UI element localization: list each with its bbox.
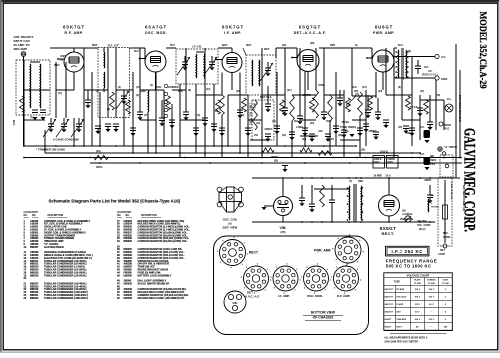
svg-text:(48): (48) bbox=[310, 42, 314, 45]
svg-text:(4): (4) bbox=[150, 84, 153, 87]
svg-text:NO.: NO. bbox=[126, 215, 130, 217]
svg-text:100V: 100V bbox=[430, 164, 436, 166]
svg-text:6SA7GT: 6SA7GT bbox=[145, 25, 167, 30]
svg-text:(36): (36) bbox=[361, 150, 365, 152]
svg-text:6SK7GT: 6SK7GT bbox=[222, 25, 244, 30]
svg-text:.05MFD: .05MFD bbox=[270, 157, 279, 159]
svg-text:ALL MEASUREMENTS MADE WITH A: ALL MEASUREMENTS MADE WITH A bbox=[384, 337, 427, 340]
svg-text:LOOP: LOOP bbox=[438, 253, 445, 256]
svg-text:.006: .006 bbox=[318, 131, 323, 133]
svg-text:PWR. AMP.: PWR. AMP. bbox=[314, 249, 332, 253]
svg-text:115 V: 115 V bbox=[414, 304, 420, 306]
svg-text:(22): (22) bbox=[294, 120, 298, 123]
svg-text:6U6GT: 6U6GT bbox=[385, 319, 393, 321]
svg-text:B65322: B65322 bbox=[30, 297, 39, 300]
svg-text:(20): (20) bbox=[310, 123, 314, 125]
svg-text:1000 OHM PER VOLT METER: 1000 OHM PER VOLT METER bbox=[384, 340, 418, 343]
svg-text:(2): (2) bbox=[118, 87, 121, 89]
svg-text:110 V: 110 V bbox=[428, 319, 434, 321]
svg-text:6X5GT: 6X5GT bbox=[385, 327, 392, 329]
svg-text:BAT.: BAT. bbox=[12, 120, 16, 126]
svg-text:(21): (21) bbox=[287, 89, 292, 92]
svg-text:RED: RED bbox=[330, 44, 335, 47]
svg-text:100 V: 100 V bbox=[414, 289, 420, 291]
svg-text:"A" INPUT: "A" INPUT bbox=[444, 145, 458, 149]
svg-text:(50): (50) bbox=[436, 95, 440, 97]
svg-text:RECT.: RECT. bbox=[381, 231, 394, 236]
svg-text:PART: PART bbox=[126, 211, 133, 214]
svg-text:GAS RECTIFIER: GAS RECTIFIER bbox=[44, 245, 64, 249]
svg-text:545 KC TO 1600 KC: 545 KC TO 1600 KC bbox=[386, 264, 432, 269]
svg-text:FREQUENCY RANGE: FREQUENCY RANGE bbox=[386, 258, 438, 263]
svg-text:RECT: RECT bbox=[397, 327, 403, 329]
svg-text:OF CHASSIS: OF CHASSIS bbox=[313, 316, 334, 320]
svg-text:25 V.: 25 V. bbox=[386, 175, 392, 178]
svg-text:VOL. CONT.: VOL. CONT. bbox=[417, 224, 431, 227]
svg-text:CHOKE: CHOKE bbox=[431, 207, 439, 209]
svg-text:BLU: BLU bbox=[134, 50, 139, 53]
svg-text:6SK7GT: 6SK7GT bbox=[385, 289, 394, 291]
svg-text:V.C.: V.C. bbox=[428, 70, 433, 73]
svg-text:RED: RED bbox=[358, 180, 363, 183]
svg-text:.5MFD: .5MFD bbox=[424, 179, 431, 182]
svg-text:90 V: 90 V bbox=[429, 304, 434, 306]
svg-text:OSC MOD: OSC MOD bbox=[397, 297, 407, 299]
svg-text:1000-Ω: 1000-Ω bbox=[380, 150, 388, 153]
svg-text:R65330: R65330 bbox=[124, 240, 133, 243]
svg-text:PLG.: PLG. bbox=[444, 128, 450, 131]
svg-text:500K: 500K bbox=[326, 121, 332, 123]
svg-text:ANT.: ANT. bbox=[60, 54, 66, 58]
svg-text:(26): (26) bbox=[354, 90, 358, 93]
svg-text:WHT.: WHT. bbox=[54, 64, 60, 67]
svg-text:(43-1): (43-1) bbox=[253, 103, 256, 110]
svg-text:TO GND: TO GND bbox=[428, 283, 436, 285]
svg-text:TUBE: TUBE bbox=[394, 282, 401, 284]
svg-text:GND.: GND. bbox=[441, 77, 448, 81]
svg-text:DESCRIPTION: DESCRIPTION bbox=[141, 215, 157, 217]
svg-text:(41): (41) bbox=[402, 210, 406, 213]
svg-text:BATTERY LEAD ASSEMBLY: BATTERY LEAD ASSEMBLY bbox=[138, 273, 172, 277]
svg-text:6SK7GT: 6SK7GT bbox=[385, 304, 394, 306]
svg-text:120 V: 120 V bbox=[428, 289, 434, 291]
svg-text:BAT.: BAT. bbox=[443, 232, 448, 235]
svg-text:B65316: B65316 bbox=[30, 274, 39, 277]
svg-text:I.F. AMP.: I.F. AMP. bbox=[224, 31, 241, 35]
svg-text:(27): (27) bbox=[330, 139, 334, 141]
svg-text:OSC. MOD.: OSC. MOD. bbox=[145, 31, 167, 35]
svg-text:AC: AC bbox=[416, 326, 420, 329]
svg-text:R.F. AMP.: R.F. AMP. bbox=[65, 31, 84, 35]
svg-text:WHT.: WHT. bbox=[92, 44, 98, 47]
svg-text:I.F. 141: I.F. 141 bbox=[192, 45, 202, 49]
svg-text:(6): (6) bbox=[188, 89, 191, 92]
svg-text:(31): (31) bbox=[272, 121, 276, 123]
svg-text:OSC: OSC bbox=[156, 86, 162, 89]
svg-text:CATH: CATH bbox=[443, 279, 449, 282]
svg-text:(33): (33) bbox=[96, 149, 101, 153]
svg-text:2 GANG COND. 365: 2 GANG COND. 365 bbox=[53, 138, 79, 142]
svg-text:MODEL 352,Ch.A-29: MODEL 352,Ch.A-29 bbox=[477, 12, 488, 89]
svg-text:ON-OFF: ON-OFF bbox=[417, 220, 427, 223]
svg-text:BLK: BLK bbox=[178, 90, 183, 93]
svg-text:WHT: WHT bbox=[222, 44, 228, 47]
svg-text:BOT. VIEW: BOT. VIEW bbox=[223, 226, 238, 230]
svg-text:(7): (7) bbox=[349, 180, 352, 183]
svg-text:(16): (16) bbox=[398, 127, 402, 129]
svg-text:A.V.C.-A.F.: A.V.C.-A.F. bbox=[245, 295, 260, 299]
svg-text:BLU: BLU bbox=[398, 44, 403, 47]
svg-text:TO GND: TO GND bbox=[414, 283, 422, 285]
svg-text:SCALE (WHITE BEAM) SP.: SCALE (WHITE BEAM) SP. bbox=[138, 281, 170, 285]
svg-text:(23): (23) bbox=[240, 115, 244, 117]
svg-text:(45): (45) bbox=[282, 44, 286, 47]
svg-text:V.C.: V.C. bbox=[441, 55, 446, 59]
svg-text:(11): (11) bbox=[58, 93, 62, 95]
svg-text:(30): (30) bbox=[302, 139, 306, 141]
svg-text:(8): (8) bbox=[408, 50, 411, 53]
svg-text:(18): (18) bbox=[236, 90, 240, 93]
svg-text:OSC. MOD.: OSC. MOD. bbox=[307, 294, 323, 298]
svg-text:BLU: BLU bbox=[170, 44, 175, 47]
svg-text:TO GND: TO GND bbox=[442, 283, 450, 285]
svg-text:6SQ7GT: 6SQ7GT bbox=[299, 25, 321, 30]
svg-text:* TRIMMER ON GANG: * TRIMMER ON GANG bbox=[36, 148, 65, 152]
svg-text:6SK7GT: 6SK7GT bbox=[63, 25, 85, 30]
svg-text:1 MEG. VOL. CONT.: 1 MEG. VOL. CONT. bbox=[249, 103, 252, 126]
svg-text:RECT.: RECT. bbox=[249, 251, 259, 255]
svg-text:NO.: NO. bbox=[117, 215, 121, 217]
svg-text:50 V: 50 V bbox=[415, 312, 420, 314]
svg-text:(63-2): (63-2) bbox=[419, 228, 426, 231]
svg-text:BAT. WIRING CKT. LEAD: BAT. WIRING CKT. LEAD bbox=[458, 95, 461, 122]
svg-text:6SQ7GT: 6SQ7GT bbox=[385, 312, 394, 314]
svg-text:SCREEN: SCREEN bbox=[427, 280, 436, 282]
svg-text:*: * bbox=[118, 44, 119, 47]
svg-text:(4): (4) bbox=[136, 94, 139, 97]
svg-text:S.P.: S.P. bbox=[424, 65, 429, 69]
svg-text:MOLDED MICA COND. (250 MMFD) K: MOLDED MICA COND. (250 MMFD) KIT bbox=[138, 296, 185, 300]
svg-text:(17): (17) bbox=[144, 115, 148, 117]
svg-text:(1): (1) bbox=[60, 58, 63, 62]
svg-text:3RD AMP.: 3RD AMP. bbox=[14, 47, 28, 51]
svg-text:CONN.: CONN. bbox=[443, 236, 451, 239]
svg-text:1MFD: 1MFD bbox=[430, 160, 437, 162]
svg-text:2 MEG.: 2 MEG. bbox=[296, 127, 304, 129]
svg-text:(3): (3) bbox=[107, 108, 110, 111]
svg-text:(1): (1) bbox=[30, 117, 33, 119]
svg-text:100 V: 100 V bbox=[428, 297, 434, 299]
svg-text:(24): (24) bbox=[378, 90, 382, 93]
svg-text:.05MFD: .05MFD bbox=[302, 94, 311, 97]
svg-text:PWR AMP: PWR AMP bbox=[397, 318, 407, 321]
svg-text:PLATE: PLATE bbox=[414, 279, 421, 282]
svg-text:6SA7GT: 6SA7GT bbox=[385, 296, 394, 299]
svg-text:(14): (14) bbox=[196, 114, 200, 117]
svg-text:600V: 600V bbox=[374, 162, 380, 164]
svg-text:VOLTAGE CHART: VOLTAGE CHART bbox=[407, 274, 430, 278]
svg-text:GALVIN MFG. CORP.: GALVIN MFG. CORP. bbox=[461, 128, 478, 232]
svg-text:(15): (15) bbox=[136, 87, 140, 89]
svg-text:(3): (3) bbox=[96, 91, 99, 93]
svg-text:OSC. COIL: OSC. COIL bbox=[223, 218, 238, 222]
svg-text:NO.: NO. bbox=[32, 215, 36, 217]
svg-text:(8): (8) bbox=[398, 87, 401, 89]
svg-text:BLK: BLK bbox=[352, 87, 357, 89]
svg-text:BOTTOM VIEW: BOTTOM VIEW bbox=[311, 311, 336, 315]
svg-text:6 AMP FUSE (49): 6 AMP FUSE (49) bbox=[450, 182, 453, 200]
svg-text:(25): (25) bbox=[281, 230, 286, 234]
svg-text:IF AMP: IF AMP bbox=[397, 303, 404, 306]
svg-text:BASS: BASS bbox=[342, 121, 349, 124]
svg-text:(47): (47) bbox=[420, 90, 424, 93]
svg-text:K65342: K65342 bbox=[124, 282, 133, 285]
svg-text:100 V: 100 V bbox=[414, 319, 420, 321]
svg-text:WHT: WHT bbox=[246, 44, 252, 47]
svg-text:(22): (22) bbox=[282, 135, 286, 137]
svg-text:GRN: GRN bbox=[140, 90, 146, 93]
svg-text:RF AMP: RF AMP bbox=[397, 288, 405, 291]
svg-text:50MFD: 50MFD bbox=[388, 159, 396, 161]
svg-text:(19): (19) bbox=[256, 123, 260, 125]
svg-text:NO.: NO. bbox=[24, 215, 28, 217]
svg-text:DESCRIPTION: DESCRIPTION bbox=[48, 215, 64, 217]
svg-text:PART: PART bbox=[32, 211, 39, 214]
svg-text:VIB.: VIB. bbox=[232, 301, 238, 305]
svg-text:TUBULAR CONDENSER (.25-200V.): TUBULAR CONDENSER (.25-200V.) bbox=[44, 273, 87, 277]
svg-text:D65346: D65346 bbox=[124, 297, 133, 300]
svg-text:WHT: WHT bbox=[264, 48, 270, 51]
svg-text:(30): (30) bbox=[274, 161, 278, 163]
svg-text:20 MFD: 20 MFD bbox=[374, 175, 383, 178]
svg-text:TUBULAR CONDENSER (.008-200V.): TUBULAR CONDENSER (.008-200V.) bbox=[44, 296, 88, 300]
svg-text:BAT. LEAD ASSEM. (46): BAT. LEAD ASSEM. (46) bbox=[462, 185, 465, 211]
svg-text:100 V: 100 V bbox=[414, 297, 420, 299]
svg-text:470K: 470K bbox=[318, 84, 324, 87]
svg-text:PWR. AMP.: PWR. AMP. bbox=[373, 31, 395, 35]
svg-text:D.L.: D.L. bbox=[447, 97, 452, 101]
svg-text:(FOR 2-A V.C.): (FOR 2-A V.C.) bbox=[422, 74, 438, 77]
svg-text:WHT. BLK.: WHT. BLK. bbox=[260, 96, 272, 99]
svg-text:S.P.: S.P. bbox=[420, 125, 425, 129]
svg-text:6U6GT: 6U6GT bbox=[375, 25, 393, 30]
svg-text:(18): (18) bbox=[214, 111, 218, 113]
svg-text:R.F. AMP.: R.F. AMP. bbox=[337, 294, 350, 298]
svg-text:CARBON RESISTOR (30,000-)(1/3W: CARBON RESISTOR (30,000-)(1/3W) VOL. bbox=[138, 239, 188, 243]
svg-text:.1MFD: .1MFD bbox=[406, 133, 413, 135]
svg-text:SKY: SKY bbox=[440, 249, 445, 252]
svg-text:90MFD: 90MFD bbox=[374, 159, 382, 161]
svg-text:(64): (64) bbox=[352, 126, 356, 129]
svg-text:B65307: B65307 bbox=[30, 246, 39, 249]
svg-text:.02MFD: .02MFD bbox=[264, 129, 273, 131]
svg-text:DET.-A.V.C.-A.F.: DET.-A.V.C.-A.F. bbox=[294, 31, 327, 35]
svg-text:I.F.= 262 KC: I.F.= 262 KC bbox=[391, 249, 423, 254]
svg-text:600V: 600V bbox=[388, 162, 394, 164]
svg-text:(28): (28) bbox=[338, 135, 342, 137]
svg-text:H65340: H65340 bbox=[124, 274, 133, 277]
svg-text:(24): (24) bbox=[362, 86, 367, 89]
svg-text:Schematic Diagram Parts List f: Schematic Diagram Parts List for Model 3… bbox=[49, 198, 181, 203]
svg-text:250MMFD: 250MMFD bbox=[168, 87, 179, 89]
svg-text:I.F. AMP.: I.F. AMP. bbox=[278, 294, 290, 298]
svg-text:TONE SW.: TONE SW. bbox=[340, 125, 353, 129]
svg-text:387Ω: 387Ω bbox=[96, 165, 102, 169]
svg-text:(14): (14) bbox=[206, 88, 210, 91]
